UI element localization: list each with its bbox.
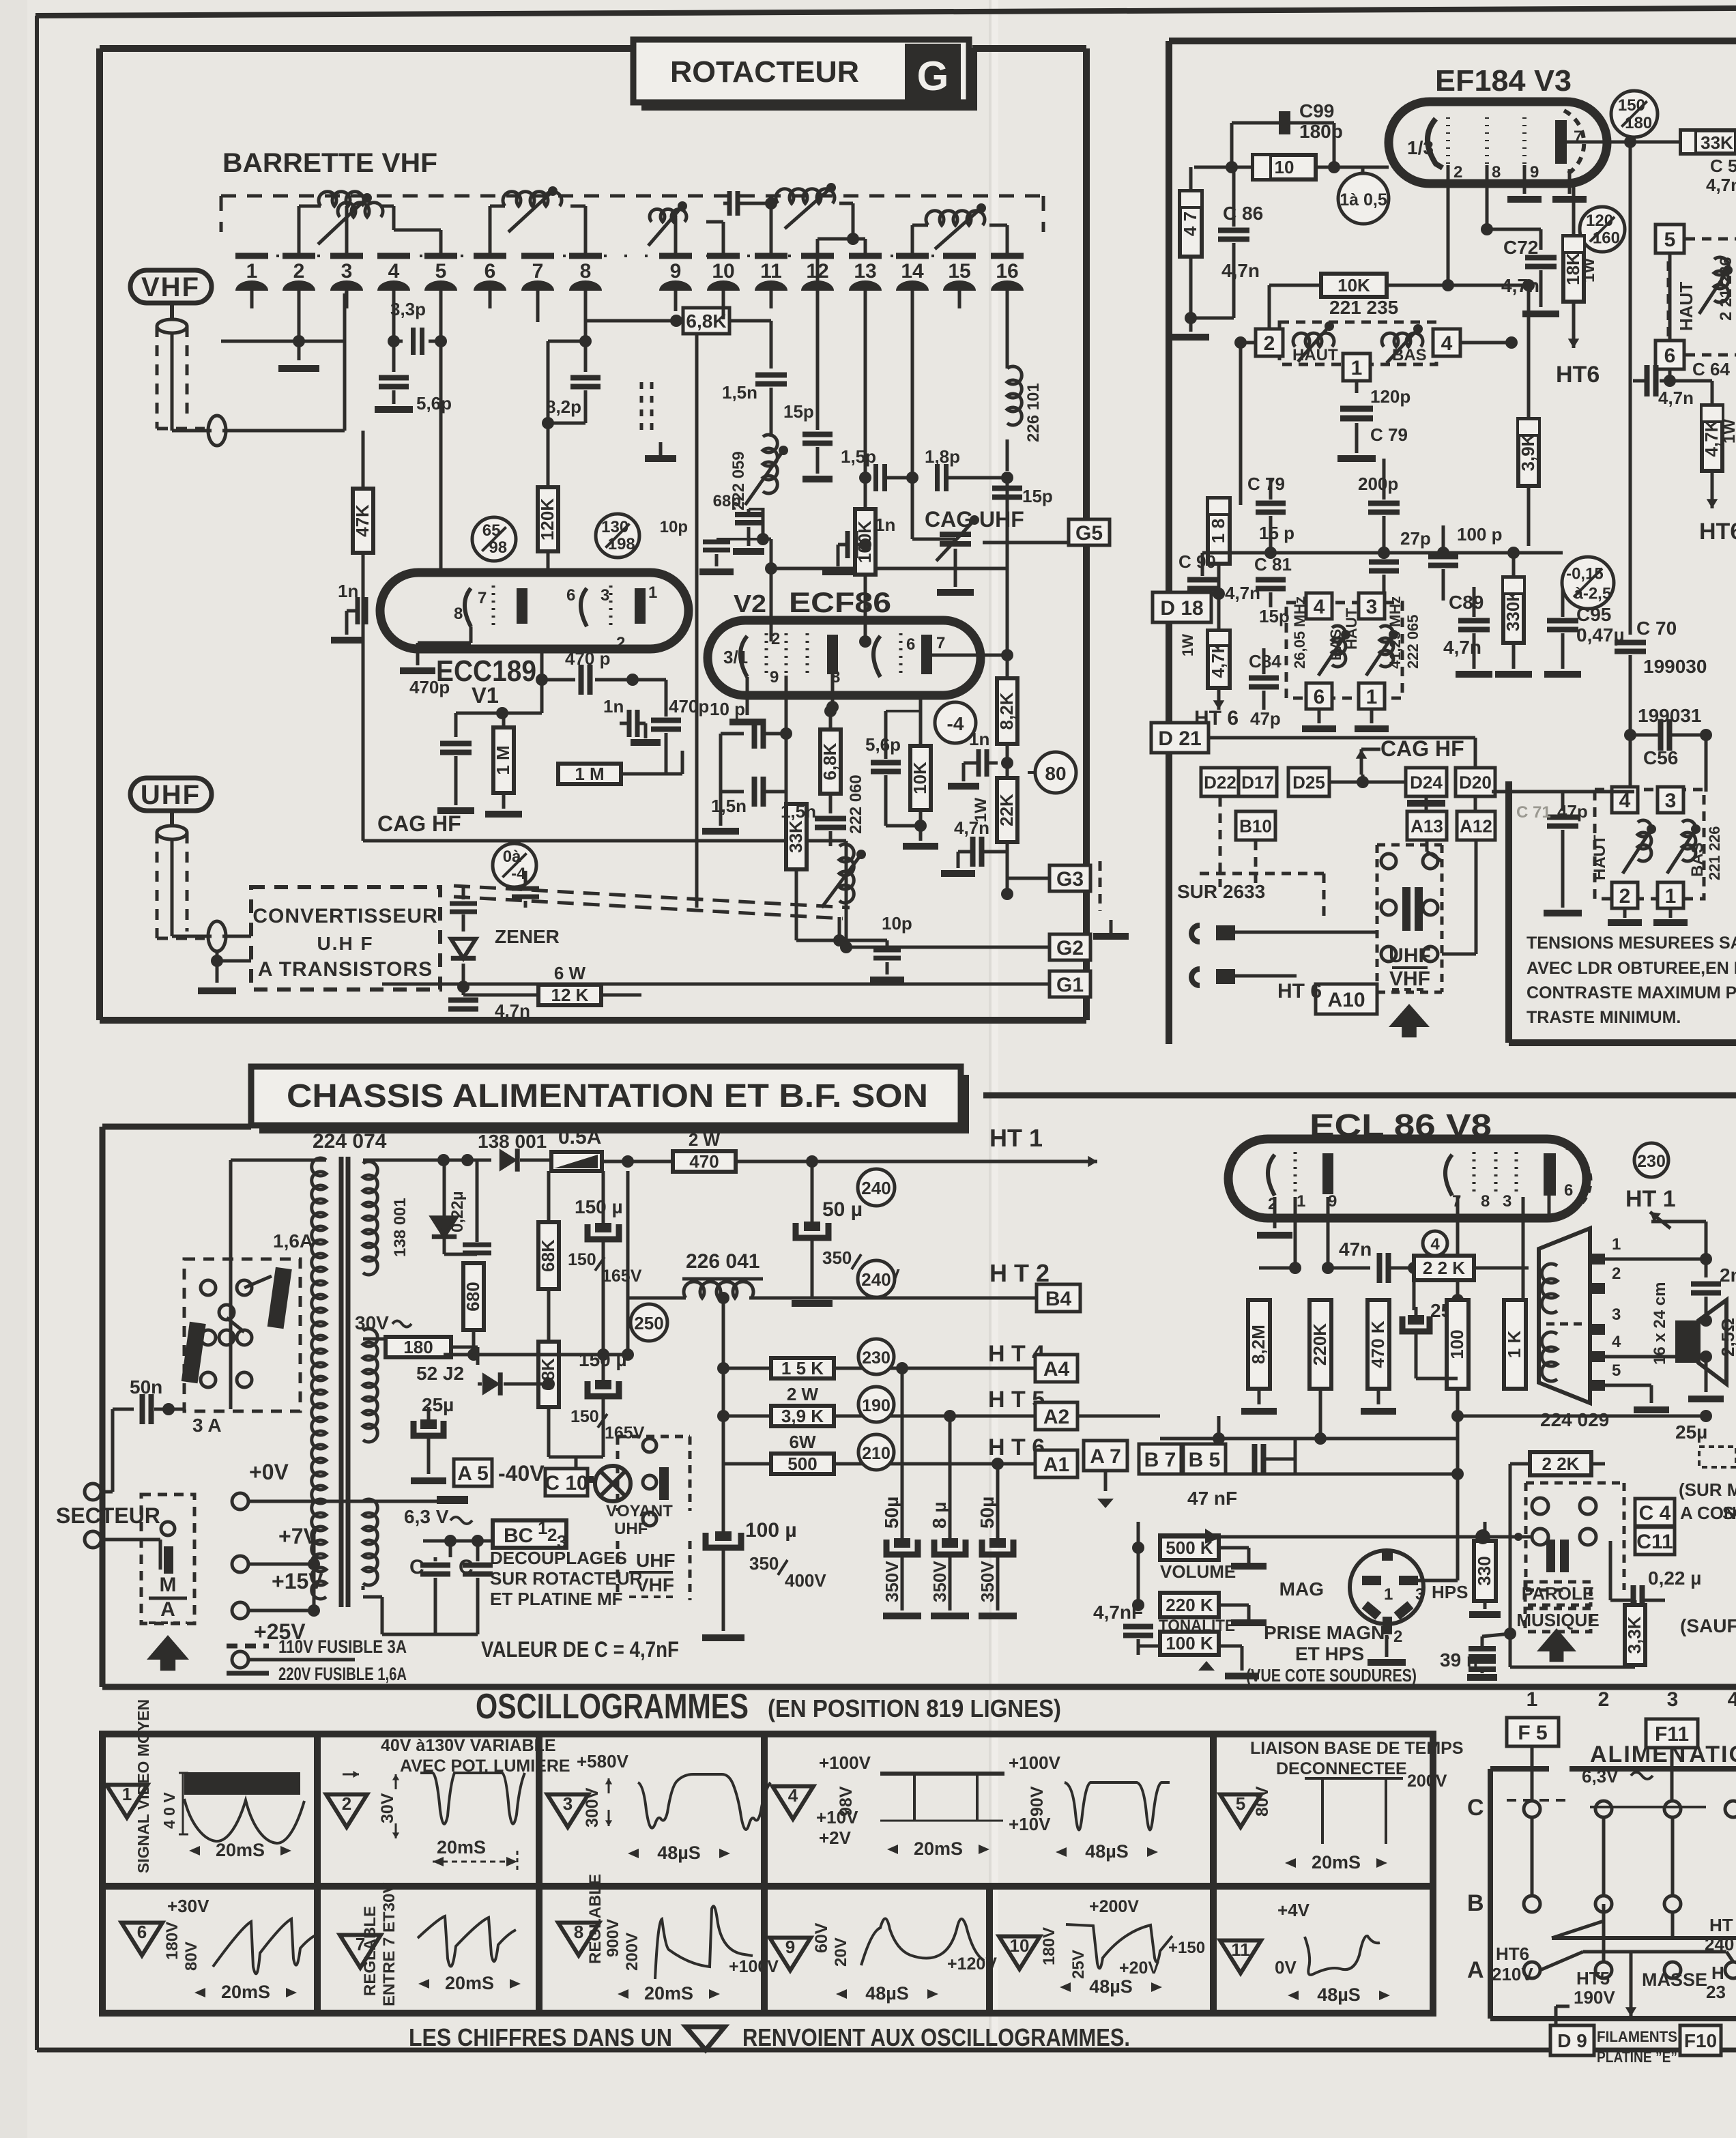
svg-text:1: 1: [1384, 1585, 1393, 1604]
svg-text:100 K: 100 K: [1166, 1633, 1213, 1653]
svg-text:HAUT: HAUT: [1676, 282, 1696, 331]
svg-text:3: 3: [1366, 596, 1378, 618]
svg-text:98: 98: [489, 538, 507, 557]
svg-text:0.5A: 0.5A: [558, 1126, 601, 1149]
svg-text:+30V: +30V: [167, 1896, 209, 1916]
svg-text:9: 9: [1530, 163, 1539, 182]
svg-text:190V: 190V: [1574, 1987, 1615, 2008]
svg-text:C89: C89: [1449, 592, 1484, 613]
svg-text:80V: 80V: [1253, 1786, 1272, 1817]
svg-text:à-2,5: à-2,5: [1574, 585, 1611, 603]
svg-text:350V: 350V: [929, 1561, 950, 1602]
svg-text:138 001: 138 001: [478, 1131, 547, 1152]
svg-text:HT6: HT6: [1699, 519, 1736, 545]
svg-text:5: 5: [1612, 1361, 1621, 1380]
svg-text:4,7n: 4,7n: [495, 1000, 530, 1021]
svg-text:+150: +150: [1168, 1939, 1205, 1957]
svg-text:+20V: +20V: [1119, 1959, 1159, 1978]
svg-text:80: 80: [1045, 763, 1066, 784]
svg-text:100: 100: [1447, 1329, 1467, 1359]
svg-text:1W: 1W: [1580, 258, 1598, 283]
svg-text:6 W: 6 W: [554, 963, 586, 983]
svg-text:1,6A: 1,6A: [273, 1230, 313, 1252]
svg-text:27p: 27p: [1400, 528, 1431, 549]
svg-text:1n: 1n: [969, 729, 989, 749]
svg-text:230: 230: [862, 1348, 891, 1368]
svg-text:150: 150: [570, 1407, 599, 1426]
svg-text:6: 6: [484, 260, 496, 283]
svg-text:8: 8: [454, 605, 463, 623]
svg-text:120p: 120p: [1370, 386, 1410, 407]
svg-text:4,7n: 4,7n: [1443, 637, 1481, 658]
svg-text:2: 2: [293, 260, 305, 283]
svg-text:HAUT: HAUT: [1292, 346, 1338, 364]
svg-text:SECTEUR: SECTEUR: [56, 1503, 160, 1528]
svg-text:G2: G2: [1056, 937, 1084, 959]
svg-text:1 5 K: 1 5 K: [781, 1358, 824, 1378]
svg-text:1 K: 1 K: [1504, 1331, 1524, 1359]
svg-text:180: 180: [403, 1337, 433, 1357]
svg-text:1: 1: [538, 1518, 547, 1538]
svg-text:SUR ROTACTEUR: SUR ROTACTEUR: [490, 1568, 643, 1589]
svg-text:C 4: C 4: [1639, 1502, 1671, 1525]
svg-text:1 M: 1 M: [493, 745, 513, 775]
svg-text:2: 2: [1598, 1688, 1610, 1711]
svg-text:C 64: C 64: [1692, 359, 1730, 379]
svg-text:2: 2: [1393, 1628, 1402, 1646]
svg-text:4 7: 4 7: [1180, 212, 1200, 236]
svg-text:20mS: 20mS: [445, 1973, 494, 1993]
svg-text:ET HPS: ET HPS: [1295, 1643, 1364, 1664]
svg-text:224 029: 224 029: [1540, 1409, 1609, 1430]
svg-text:470 K: 470 K: [1368, 1320, 1388, 1368]
svg-text:3: 3: [1415, 1585, 1424, 1604]
svg-text:A 5: A 5: [457, 1462, 489, 1485]
svg-text:100 µ: 100 µ: [745, 1519, 797, 1542]
svg-text:1à 0,5: 1à 0,5: [1340, 190, 1387, 210]
svg-text:MASSE: MASSE: [1642, 1969, 1707, 1990]
svg-text:48µS: 48µS: [657, 1843, 701, 1863]
svg-text:15 p: 15 p: [1259, 523, 1294, 543]
svg-text:2: 2: [616, 634, 625, 652]
svg-text:221 226: 221 226: [1706, 826, 1723, 880]
svg-text:A1: A1: [1043, 1454, 1069, 1476]
svg-text:2 21 236: 2 21 236: [1717, 257, 1735, 321]
svg-text:6: 6: [906, 635, 915, 654]
svg-text:226 101: 226 101: [1024, 383, 1043, 442]
svg-text:47 nF: 47 nF: [1187, 1488, 1237, 1509]
svg-text:LIAISON BASE DE TEMPS: LIAISON BASE DE TEMPS: [1250, 1739, 1464, 1758]
svg-text:BARRETTE VHF: BARRETTE VHF: [222, 148, 437, 178]
svg-text:2n: 2n: [1720, 1265, 1736, 1286]
svg-text:PRISE MAGN.: PRISE MAGN.: [1264, 1622, 1390, 1643]
svg-text:198: 198: [608, 535, 635, 553]
svg-text:B4: B4: [1045, 1288, 1072, 1310]
svg-text:2: 2: [1264, 332, 1275, 355]
svg-text:222 060: 222 060: [847, 775, 865, 834]
svg-text:HAUT: HAUT: [1343, 607, 1360, 650]
svg-text:400V: 400V: [785, 1570, 826, 1591]
svg-text:1,5p: 1,5p: [841, 446, 876, 467]
svg-text:+120V: +120V: [947, 1954, 997, 1974]
svg-text:A 7: A 7: [1090, 1445, 1121, 1468]
svg-text:D25: D25: [1292, 772, 1325, 792]
svg-text:23: 23: [1706, 1982, 1726, 2002]
svg-text:0à: 0à: [503, 848, 521, 866]
svg-text:G5: G5: [1075, 522, 1103, 545]
svg-text:10p: 10p: [660, 518, 688, 536]
svg-text:VHF: VHF: [141, 272, 200, 302]
svg-text:40V à130V VARIABLE: 40V à130V VARIABLE: [381, 1736, 556, 1755]
svg-text:OSCILLOGRAMMES: OSCILLOGRAMMES: [476, 1687, 749, 1727]
svg-text:D 18: D 18: [1160, 597, 1203, 620]
svg-text:3: 3: [1667, 1688, 1679, 1711]
svg-text:TRASTE MINIMUM.: TRASTE MINIMUM.: [1527, 1008, 1681, 1027]
svg-text:1: 1: [648, 583, 657, 602]
svg-text:B10: B10: [1239, 815, 1272, 836]
svg-text:1,8p: 1,8p: [925, 446, 960, 467]
svg-text:10: 10: [1275, 157, 1294, 177]
svg-text:3: 3: [1503, 1192, 1511, 1211]
svg-text:C: C: [1467, 1795, 1484, 1821]
svg-text:MUSIQUE: MUSIQUE: [1516, 1610, 1599, 1630]
svg-text:2: 2: [1453, 163, 1462, 182]
svg-text:500: 500: [787, 1454, 817, 1474]
svg-text:11: 11: [1231, 1939, 1250, 1960]
svg-text:9: 9: [785, 1937, 795, 1957]
svg-text:7: 7: [532, 260, 544, 283]
svg-text:FILAMENTS: FILAMENTS: [1597, 2028, 1677, 2045]
svg-text:150: 150: [568, 1250, 596, 1269]
svg-text:SIGNAL VIDEO MOYEN: SIGNAL VIDEO MOYEN: [134, 1699, 152, 1873]
svg-text:HAUT: HAUT: [1591, 835, 1609, 880]
svg-text:RENVOIENT AUX OSCILLOGRAMMES.: RENVOIENT AUX OSCILLOGRAMMES.: [742, 2023, 1130, 2051]
svg-text:VOLUME: VOLUME: [1160, 1561, 1236, 1582]
svg-text:6: 6: [1564, 1181, 1573, 1200]
svg-text:C 71: C 71: [1516, 803, 1551, 822]
svg-text:4: 4: [1612, 1333, 1621, 1351]
svg-text:221 235: 221 235: [1329, 297, 1398, 318]
svg-text:DECOUPLAGES: DECOUPLAGES: [490, 1548, 627, 1568]
svg-text:D 21: D 21: [1158, 727, 1201, 750]
svg-text:5,6p: 5,6p: [865, 734, 901, 755]
svg-text:1,5n: 1,5n: [722, 382, 757, 403]
svg-text:12 K: 12 K: [551, 985, 589, 1005]
svg-text:350: 350: [749, 1553, 779, 1574]
svg-text:REGLABLE: REGLABLE: [586, 1874, 605, 1964]
svg-text:4,7n: 4,7n: [1501, 275, 1539, 296]
svg-text:4,7K: 4,7K: [1701, 419, 1722, 457]
svg-text:HT 6: HT 6: [1277, 980, 1322, 1002]
svg-text:680: 680: [463, 1282, 483, 1311]
svg-text:6,3 V: 6,3 V: [404, 1506, 449, 1527]
svg-text:C56: C56: [1643, 747, 1678, 768]
svg-text:470p: 470p: [409, 677, 450, 697]
svg-text:250: 250: [634, 1313, 663, 1333]
svg-text:11: 11: [760, 260, 782, 283]
svg-text:A: A: [1467, 1957, 1484, 1983]
svg-text:+100V: +100V: [729, 1957, 779, 1976]
svg-text:PLATINE ”E”: PLATINE ”E”: [1597, 2049, 1677, 2066]
svg-text:2 W: 2 W: [787, 1384, 819, 1404]
svg-text:900V: 900V: [604, 1919, 622, 1957]
svg-text:20mS: 20mS: [437, 1837, 486, 1858]
svg-text:20mS: 20mS: [216, 1840, 265, 1860]
svg-text:33K: 33K: [785, 820, 806, 853]
svg-text:1: 1: [246, 260, 258, 283]
svg-text:D22: D22: [1204, 772, 1236, 792]
svg-text:5,6p: 5,6p: [416, 393, 452, 414]
svg-text:0,22 µ: 0,22 µ: [1648, 1568, 1701, 1589]
svg-text:1: 1: [1527, 1688, 1538, 1711]
svg-text:HT 1: HT 1: [1625, 1186, 1676, 1212]
svg-text:30V: 30V: [378, 1793, 397, 1823]
svg-text:TENSIONS MESUREES SANS SIGN: TENSIONS MESUREES SANS SIGN: [1527, 934, 1736, 953]
svg-text:VHF: VHF: [1389, 968, 1430, 990]
svg-text:G1: G1: [1056, 974, 1084, 996]
svg-text:+0V: +0V: [249, 1460, 289, 1484]
svg-text:4,7n: 4,7n: [1225, 583, 1260, 603]
svg-text:350V: 350V: [882, 1561, 902, 1602]
svg-text:+200V: +200V: [1089, 1897, 1139, 1916]
svg-text:V2: V2: [734, 590, 766, 618]
svg-text:1: 1: [1351, 357, 1363, 379]
svg-text:SO: SO: [1722, 1503, 1736, 1523]
svg-text:15: 15: [948, 260, 970, 283]
svg-text:150: 150: [1618, 96, 1645, 115]
svg-text:EF184 V3: EF184 V3: [1435, 64, 1572, 98]
svg-text:1: 1: [1366, 686, 1378, 708]
svg-text:220K: 220K: [1310, 1323, 1330, 1366]
svg-text:68K: 68K: [538, 1239, 558, 1272]
svg-text:4: 4: [1728, 1688, 1736, 1711]
svg-text:6: 6: [1664, 345, 1676, 367]
svg-text:BAS: BAS: [1392, 346, 1427, 364]
svg-text:3: 3: [601, 586, 609, 605]
svg-text:25V: 25V: [1069, 1950, 1088, 1979]
svg-text:10K: 10K: [910, 762, 930, 794]
svg-text:90V: 90V: [1028, 1786, 1047, 1817]
svg-text:A10: A10: [1327, 989, 1365, 1011]
svg-text:8,2p: 8,2p: [546, 396, 581, 417]
svg-text:210V: 210V: [1492, 1964, 1533, 1984]
svg-text:VOYANT: VOYANT: [606, 1502, 673, 1520]
svg-text:240: 240: [861, 1178, 891, 1198]
svg-text:165V: 165V: [605, 1424, 645, 1443]
svg-text:110V FUSIBLE 3A: 110V FUSIBLE 3A: [278, 1636, 407, 1657]
svg-text:20V: 20V: [832, 1937, 850, 1967]
svg-text:ROTACTEUR: ROTACTEUR: [670, 55, 859, 89]
svg-text:8: 8: [580, 260, 592, 283]
svg-text:(SUR MO: (SUR MO: [1679, 1479, 1736, 1500]
svg-text:16 x 24 cm: 16 x 24 cm: [1651, 1282, 1669, 1365]
svg-text:0V: 0V: [1275, 1957, 1297, 1978]
svg-text:6,3V: 6,3V: [1582, 1766, 1619, 1787]
svg-text:F10: F10: [1684, 2030, 1717, 2051]
svg-text:200p: 200p: [1358, 474, 1398, 494]
svg-text:1/3: 1/3: [1407, 137, 1434, 158]
svg-text:(EN POSITION 819 LIGNES): (EN POSITION 819 LIGNES): [768, 1694, 1061, 1722]
svg-text:REGLABLE: REGLABLE: [361, 1906, 379, 1996]
svg-text:C72: C72: [1503, 237, 1538, 258]
svg-text:6,8K: 6,8K: [686, 310, 726, 332]
svg-text:D17: D17: [1241, 772, 1274, 792]
svg-text:180: 180: [1625, 114, 1652, 132]
svg-text:1W: 1W: [1720, 419, 1736, 444]
svg-text:F 5: F 5: [1518, 1722, 1547, 1744]
svg-text:+15V: +15V: [272, 1569, 323, 1593]
svg-text:4: 4: [1430, 1235, 1440, 1254]
svg-text:B 5: B 5: [1189, 1449, 1221, 1471]
svg-text:A4: A4: [1043, 1358, 1070, 1381]
svg-text:47K: 47K: [352, 504, 373, 537]
svg-text:22K: 22K: [996, 794, 1017, 826]
svg-text:1n: 1n: [603, 696, 624, 717]
svg-text:(SAUF 263: (SAUF 263: [1680, 1615, 1736, 1636]
svg-text:6: 6: [137, 1922, 147, 1942]
svg-text:50µ: 50µ: [976, 1497, 998, 1529]
svg-text:3,9 K: 3,9 K: [781, 1406, 824, 1426]
svg-text:4: 4: [788, 1785, 798, 1806]
svg-text:AVEC LDR OBTUREE,EN POSITIO: AVEC LDR OBTUREE,EN POSITIO: [1527, 959, 1736, 978]
svg-text:1: 1: [1665, 885, 1677, 908]
svg-text:222 065: 222 065: [1404, 614, 1421, 669]
svg-text:+2V: +2V: [819, 1828, 852, 1848]
svg-text:0,22µ: 0,22µ: [448, 1191, 467, 1232]
svg-text:50 µ: 50 µ: [822, 1198, 863, 1221]
svg-text:ET PLATINE MF: ET PLATINE MF: [490, 1589, 623, 1609]
svg-text:C 79: C 79: [1247, 474, 1285, 494]
svg-text:15p: 15p: [783, 401, 814, 422]
svg-text:7: 7: [936, 634, 945, 652]
svg-text:180V: 180V: [163, 1922, 182, 1960]
svg-text:50µ: 50µ: [881, 1497, 902, 1529]
svg-text:52 J2: 52 J2: [416, 1363, 464, 1384]
svg-text:150 µ: 150 µ: [575, 1196, 623, 1217]
svg-text:20mS: 20mS: [644, 1983, 693, 2004]
svg-text:26,05 MHz: 26,05 MHz: [1291, 596, 1308, 669]
svg-text:CHASSIS ALIMENTATION ET B.F: CHASSIS ALIMENTATION ET B.F. SON: [287, 1078, 928, 1114]
svg-text:2 2 K: 2 2 K: [1423, 1258, 1465, 1278]
svg-text:60V: 60V: [812, 1922, 831, 1953]
svg-text:1: 1: [1297, 1192, 1305, 1211]
svg-text:5: 5: [435, 260, 447, 283]
svg-text:B 7: B 7: [1144, 1449, 1176, 1471]
svg-text:165V: 165V: [602, 1267, 642, 1286]
svg-text:120: 120: [1586, 212, 1613, 230]
svg-text:BAS: BAS: [1688, 842, 1707, 877]
svg-text:47p: 47p: [1250, 708, 1281, 729]
svg-text:MAG: MAG: [1279, 1578, 1324, 1600]
svg-text:CAG HF: CAG HF: [377, 811, 461, 836]
svg-text:3: 3: [1665, 790, 1677, 812]
svg-text:4,7n: 4,7n: [1706, 175, 1736, 195]
svg-text:2: 2: [771, 630, 780, 648]
svg-text:C 52: C 52: [1710, 156, 1736, 176]
svg-text:180V: 180V: [1040, 1927, 1058, 1965]
svg-text:2: 2: [342, 1793, 351, 1814]
svg-text:HT: HT: [1709, 1915, 1733, 1935]
svg-text:199030: 199030: [1643, 656, 1707, 677]
svg-text:1W: 1W: [1179, 634, 1196, 656]
svg-text:VALEUR DE C = 4,7nF: VALEUR DE C = 4,7nF: [481, 1637, 679, 1662]
svg-text:25µ: 25µ: [422, 1394, 454, 1415]
svg-text:TATION: TATION: [1675, 1742, 1736, 1767]
svg-text:350: 350: [822, 1247, 852, 1268]
svg-text:C 81: C 81: [1254, 554, 1292, 575]
svg-text:4: 4: [388, 260, 400, 283]
svg-text:1n: 1n: [875, 515, 895, 535]
svg-text:2 W: 2 W: [689, 1129, 721, 1150]
svg-text:220 K: 220 K: [1166, 1595, 1213, 1615]
svg-text:+100V: +100V: [1009, 1752, 1061, 1773]
svg-text:D 9: D 9: [1557, 2030, 1587, 2051]
svg-text:3,9K: 3,9K: [1518, 433, 1538, 471]
svg-text:20mS: 20mS: [914, 1838, 963, 1859]
svg-text:BC: BC: [504, 1525, 533, 1547]
svg-text:330K: 330K: [1503, 589, 1523, 631]
svg-text:C 10: C 10: [545, 1472, 588, 1494]
svg-text:A2: A2: [1043, 1406, 1069, 1428]
svg-text:48µS: 48µS: [1089, 1976, 1133, 1997]
svg-text:+580V: +580V: [577, 1751, 629, 1772]
svg-text:2,5Ω: 2,5Ω: [1718, 1318, 1736, 1357]
svg-text:3: 3: [563, 1793, 573, 1814]
svg-text:470p: 470p: [669, 696, 709, 717]
svg-text:2 2K: 2 2K: [1542, 1454, 1580, 1474]
svg-text:HT 1: HT 1: [989, 1124, 1043, 1152]
svg-text:130: 130: [601, 518, 628, 536]
svg-text:C 70: C 70: [1636, 618, 1677, 639]
svg-text:5: 5: [1664, 229, 1676, 251]
svg-text:4,7n: 4,7n: [1658, 388, 1694, 408]
svg-text:U.H F: U.H F: [317, 933, 373, 954]
svg-text:160: 160: [1593, 229, 1620, 247]
svg-text:D24: D24: [1410, 772, 1443, 792]
svg-text:+100V: +100V: [819, 1752, 871, 1773]
svg-text:4,7n: 4,7n: [1221, 260, 1260, 281]
svg-text:470: 470: [689, 1151, 719, 1172]
svg-text:50n: 50n: [130, 1376, 162, 1398]
svg-text:+4V: +4V: [1277, 1900, 1310, 1920]
svg-text:65: 65: [482, 521, 501, 540]
svg-text:8,2K: 8,2K: [996, 692, 1017, 729]
svg-text:C99: C99: [1299, 100, 1334, 121]
svg-text:A: A: [160, 1598, 175, 1621]
svg-text:C 79: C 79: [1370, 424, 1408, 445]
svg-text:48µS: 48µS: [1085, 1841, 1129, 1862]
svg-text:-0,15: -0,15: [1566, 564, 1604, 583]
svg-text:13: 13: [854, 260, 876, 283]
svg-text:100 p: 100 p: [1457, 524, 1503, 545]
svg-text:C11: C11: [1636, 1531, 1673, 1553]
svg-text:A TRANSISTORS: A TRANSISTORS: [258, 958, 433, 981]
svg-text:+10V: +10V: [1009, 1814, 1051, 1834]
svg-text:8: 8: [1481, 1192, 1490, 1211]
svg-text:3,3p: 3,3p: [390, 299, 426, 319]
svg-text:2: 2: [1619, 885, 1631, 908]
svg-text:10p: 10p: [882, 913, 912, 934]
svg-text:HT6: HT6: [1556, 362, 1600, 388]
svg-text:8,2M: 8,2M: [1248, 1325, 1269, 1364]
svg-text:120K: 120K: [537, 498, 558, 540]
svg-text:5: 5: [1236, 1793, 1245, 1814]
svg-text:ZENER: ZENER: [495, 926, 560, 947]
svg-text:1: 1: [122, 1784, 132, 1804]
svg-text:10 p: 10 p: [710, 699, 745, 719]
svg-text:+10V: +10V: [816, 1807, 858, 1828]
svg-text:6,8K: 6,8K: [820, 742, 840, 780]
